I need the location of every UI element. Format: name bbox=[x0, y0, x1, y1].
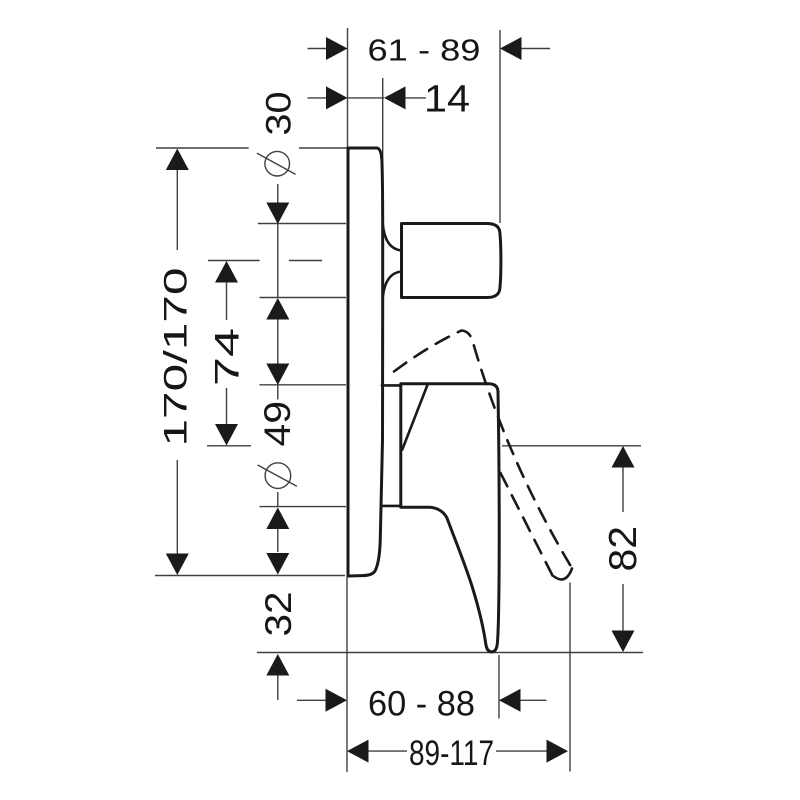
extension line y=223.5 knob top bbox=[258, 223, 346, 225]
dimension 14 left arrow bbox=[326, 86, 348, 109]
chain arrow down at y=574.5 bbox=[266, 553, 289, 575]
dimension 89-117 right arrow bbox=[547, 740, 569, 763]
extension line x=347 bottom bbox=[346, 577, 348, 772]
dimension 89-117 left line bbox=[369, 750, 408, 752]
lever hub taper line bbox=[402, 384, 428, 450]
dimension 170/170 shaft lower bbox=[176, 460, 178, 554]
dimension 170/170 shaft upper bbox=[176, 170, 178, 250]
extension line right vertical x=500 bbox=[499, 30, 501, 223]
knob connector cone top flare bbox=[383, 225, 402, 251]
dimension 82 bottom arrow bbox=[612, 631, 635, 653]
chain shaft bottom bbox=[277, 676, 279, 701]
diameter symbol for 49 bbox=[265, 463, 291, 489]
extension line y=575.5 plate bottom bbox=[155, 575, 345, 577]
knob connector cone bottom flare bbox=[383, 272, 402, 298]
dashed lever upper edge bbox=[394, 331, 474, 372]
dimension 60-88 right arrow bbox=[499, 689, 521, 712]
collar top edge bbox=[382, 384, 400, 387]
chain line below 385 bbox=[277, 385, 279, 400]
diameter symbol for 30 bbox=[265, 151, 290, 176]
dashed lever tip arc bbox=[554, 569, 572, 580]
dimension 170/170 bottom arrow bbox=[166, 554, 189, 576]
extension line y=148 plate top bbox=[156, 147, 249, 149]
dimension 61-89 left arrow bbox=[326, 37, 348, 60]
dimension 61-89 right arrow bbox=[500, 37, 522, 60]
svg-text:74: 74 bbox=[209, 328, 247, 386]
extension line y=445.8 lever axis right bbox=[502, 445, 641, 447]
dimension 60-88 left arrow bbox=[326, 689, 348, 712]
dimension 74 top arrow bbox=[215, 261, 238, 283]
extension line y=652.5 lever tip bbox=[257, 652, 643, 654]
chain arrow up at y=654 bbox=[266, 654, 289, 676]
escutcheon plate outline bbox=[348, 148, 383, 576]
dashed lever outer edge bbox=[474, 346, 571, 567]
dimension 82 top arrow bbox=[612, 446, 635, 468]
extension line y=260.5 knob axis bbox=[208, 260, 260, 262]
extension line y=445.8 lever axis left bbox=[207, 445, 251, 447]
dimension 74 bottom arrow bbox=[215, 424, 238, 446]
extension line y=384.8 lever top bbox=[259, 384, 346, 386]
knob outline bbox=[402, 224, 501, 298]
svg-text:61 - 89: 61 - 89 bbox=[368, 33, 481, 68]
dimension 74 shaft lower bbox=[226, 388, 228, 424]
dashed lever inner edge bbox=[498, 467, 553, 576]
chain arrow up at y=298 bbox=[266, 298, 289, 320]
extension line y=297.5 knob bottom bbox=[260, 297, 346, 299]
dimension 170/170 top arrow bbox=[166, 149, 189, 171]
dimension 14 right arrow bbox=[384, 86, 406, 109]
dimension 82 shaft lower bbox=[622, 584, 624, 631]
chain shaft between bbox=[277, 320, 279, 364]
chain shaft bbox=[277, 529, 279, 552]
extension line x=499 solid lever tip bbox=[498, 655, 500, 719]
extension line y=506.6 hub bottom bbox=[259, 506, 346, 508]
svg-text:14: 14 bbox=[424, 79, 470, 121]
dimension 61-89 left tail bbox=[308, 48, 327, 50]
chain arrow down at y=385 bbox=[266, 364, 289, 386]
dimension 89-117 right line bbox=[496, 750, 547, 752]
collar bottom edge bbox=[381, 505, 400, 508]
svg-text:32: 32 bbox=[258, 592, 299, 637]
svg-text:30: 30 bbox=[259, 92, 298, 136]
svg-text:49: 49 bbox=[257, 401, 298, 447]
dimension 82 shaft upper bbox=[622, 468, 624, 513]
dimension 14 left tail bbox=[308, 97, 327, 99]
chain line below circle bbox=[277, 492, 279, 507]
extension line x=383 for 14 bbox=[382, 78, 384, 164]
dimension 61-89 right tail bbox=[522, 48, 551, 50]
svg-text:82: 82 bbox=[602, 526, 645, 572]
dimension 14 line between bbox=[348, 97, 385, 99]
dimension 74 shaft upper bbox=[226, 283, 228, 321]
dimension 14 right tail bbox=[406, 97, 427, 99]
chain line through knob span bbox=[277, 224, 279, 298]
dimension 60-88 left tail bbox=[297, 699, 326, 701]
dimension 89-117 left arrow bbox=[347, 740, 369, 763]
svg-text:170/170: 170/170 bbox=[157, 268, 193, 447]
svg-text:60 - 88: 60 - 88 bbox=[368, 684, 475, 724]
extension line left vertical x=347.5 top bbox=[347, 28, 349, 148]
extension line x=570 dashed lever tip bbox=[569, 583, 571, 772]
chain arrow down at y=224 bbox=[266, 203, 289, 225]
lever handle outline bbox=[401, 384, 499, 652]
dimension 60-88 right tail bbox=[521, 699, 547, 701]
svg-text:89-117: 89-117 bbox=[409, 734, 494, 773]
chain arrow up at y=507.5 bbox=[266, 508, 289, 530]
chain shaft above knob-top arrow bbox=[277, 184, 279, 203]
